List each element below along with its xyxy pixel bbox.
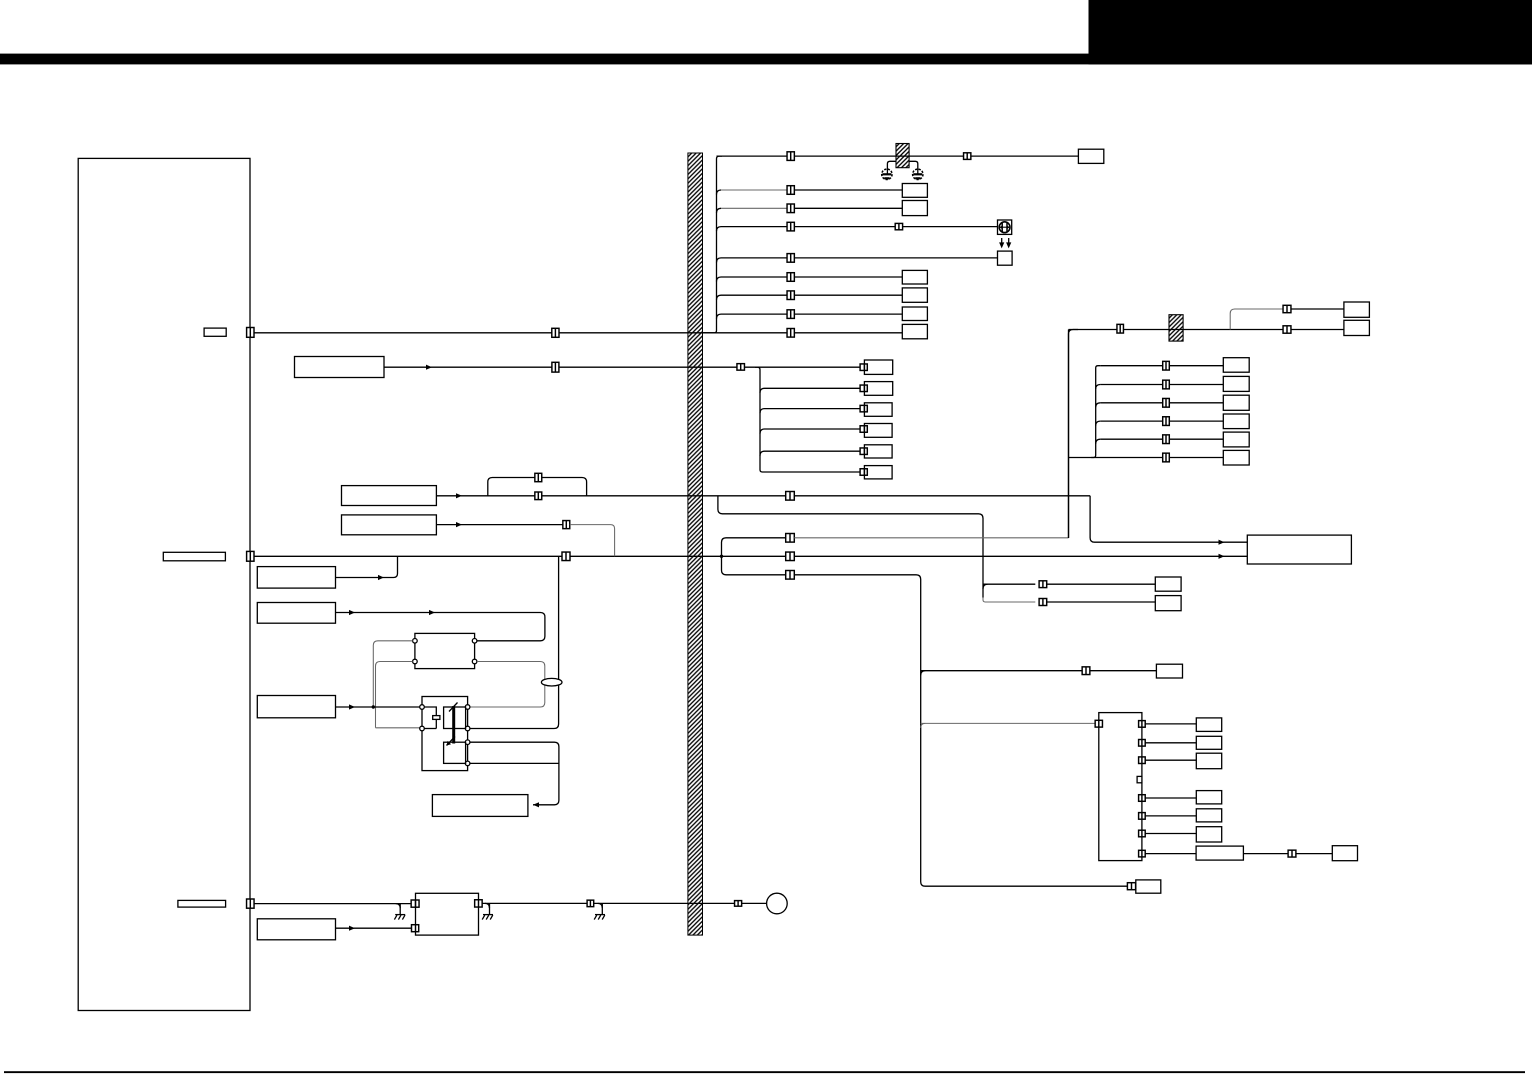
connector wire2 a — [1039, 581, 1047, 588]
ground tap 3 elbow — [598, 903, 603, 908]
ECM pin label 1 — [204, 328, 226, 336]
thermostat box B — [342, 515, 437, 535]
component box topright b — [1344, 320, 1370, 335]
fan row4 pin — [860, 426, 867, 433]
ground tap 1 — [399, 904, 401, 915]
connector topright b — [1283, 326, 1291, 333]
topright a to box — [1291, 308, 1344, 310]
wire5 branch — [722, 556, 786, 575]
component box rowE — [1223, 432, 1249, 447]
box0 wire — [384, 366, 757, 368]
wireA loop — [488, 478, 587, 496]
connector row5 — [787, 254, 794, 263]
row2 wire right — [787, 189, 902, 191]
filter left bottom pin — [412, 925, 419, 932]
row9 wire to box — [703, 332, 903, 334]
wire2b to box — [1047, 601, 1156, 603]
row2 branch — [717, 190, 722, 195]
tall box pin p2 — [1139, 740, 1146, 747]
relay LB drop — [376, 662, 413, 728]
connector on main wire — [562, 552, 570, 561]
fan row6 pin — [860, 469, 867, 476]
component box p1 — [1196, 718, 1221, 732]
row2 wire left — [721, 189, 787, 191]
component box rowA — [1223, 358, 1249, 373]
component box p5 — [1196, 791, 1221, 804]
component box 670 — [1156, 664, 1182, 678]
vertical B from main wire — [470, 556, 559, 728]
ECM pin connector 2 — [247, 551, 254, 561]
component box p7 — [1196, 827, 1221, 842]
ground tap 2 — [489, 903, 491, 914]
tall box pin p7 — [1139, 830, 1146, 837]
rowC branch — [1096, 403, 1101, 408]
component box below fan — [998, 251, 1013, 265]
connector rowF — [1163, 453, 1170, 462]
compressor clutch coil circle — [767, 893, 788, 914]
fan row2 branch — [760, 388, 765, 393]
junction connector block — [1099, 713, 1142, 861]
tall box pin p1 — [1139, 721, 1146, 728]
power transistor box — [422, 697, 468, 771]
wire5 to drop — [794, 575, 1127, 886]
arrowhead box4 — [533, 802, 539, 807]
row3 wire right — [787, 207, 902, 209]
rowA wire — [1100, 365, 1223, 367]
relay pin — [472, 659, 477, 664]
component box rowB — [1223, 376, 1249, 391]
header black title block — [1089, 0, 1532, 64]
wire3 riser — [1069, 330, 1079, 538]
boxB wire — [436, 524, 569, 526]
component box row1 right — [1078, 149, 1103, 163]
connector topright main — [1117, 324, 1124, 333]
transistor slash bottom — [447, 737, 456, 746]
component box row6 — [902, 270, 927, 284]
row6 branch — [717, 277, 722, 282]
connector row4 b — [895, 223, 902, 229]
vertical bus harness — [712, 156, 722, 333]
row7 wire — [721, 294, 902, 296]
connector row8 — [787, 310, 794, 319]
arrowhead boxB — [456, 522, 462, 527]
box2 wire — [336, 613, 545, 641]
arrowhead box0 — [426, 365, 432, 370]
connector 670 — [1082, 667, 1090, 675]
component box fan row4 — [864, 424, 892, 438]
component box 886 — [1136, 880, 1161, 893]
topright gray branch — [1230, 309, 1283, 330]
wire2 elbow — [983, 584, 988, 589]
row5 wire — [721, 257, 998, 259]
fan row5 wire — [765, 450, 861, 452]
arrowhead box5 — [349, 926, 355, 931]
wide component box p8 — [1196, 846, 1243, 860]
row3 wire left — [721, 207, 787, 209]
wire p1 — [1145, 723, 1196, 725]
connector p8 — [1288, 850, 1296, 857]
wire2a to box — [1047, 583, 1156, 585]
arrowhead box2 a — [349, 610, 355, 615]
filter right pin — [475, 900, 483, 907]
tall box pin p5 — [1139, 795, 1146, 802]
rowE branch — [1096, 439, 1101, 444]
connector box0 a — [552, 362, 559, 372]
row8 branch — [717, 314, 722, 319]
670 to box — [1090, 670, 1157, 672]
R4 to drop — [470, 762, 559, 764]
fan bus — [755, 367, 765, 472]
fan row6 wire — [765, 471, 861, 473]
lower link to transistor — [376, 727, 420, 729]
transistor slash top — [449, 703, 458, 712]
connector row4 — [787, 222, 794, 231]
dress panel hatched box right — [1169, 315, 1183, 341]
component box row8 — [902, 307, 927, 321]
condenser fan motor symbol — [998, 220, 1012, 234]
tall box pin p8 — [1139, 850, 1146, 857]
connector loop upper — [535, 473, 542, 481]
component box p2 — [1196, 736, 1221, 749]
rowE wire — [1100, 438, 1223, 440]
wire p6 — [1145, 815, 1196, 817]
component box fan row5 — [864, 445, 892, 458]
component box fan row2 — [864, 382, 892, 396]
evaporator sensor box 4 — [432, 795, 528, 817]
component box rowD — [1223, 414, 1249, 429]
ground symbol 2 — [482, 915, 493, 920]
component box rowC — [1223, 395, 1249, 410]
ground tap 2 elbow — [485, 903, 490, 908]
row6 wire — [721, 276, 902, 278]
wire3 branch — [722, 538, 786, 557]
ground lead left — [887, 161, 896, 173]
ECM/PCM control unit box — [78, 158, 250, 1010]
fan row4 branch — [760, 429, 765, 434]
bottom wire right — [482, 902, 766, 904]
relay LT drop — [373, 641, 412, 707]
ECM pin label 3 — [178, 900, 226, 907]
fan row2 pin — [860, 385, 867, 392]
flow arrows below fan — [999, 238, 1011, 248]
fan row5 branch — [760, 451, 765, 456]
row7 branch — [717, 295, 722, 300]
relay pin — [413, 639, 418, 644]
ground lead right — [909, 161, 918, 173]
connector row3 — [787, 204, 794, 213]
bottom rule — [4, 1071, 1525, 1073]
relay pin — [472, 639, 477, 644]
bus wire right top — [1069, 329, 1284, 331]
connector rowE — [1163, 435, 1170, 444]
main wire pin2 — [254, 555, 1247, 557]
arrowhead box3 — [349, 704, 355, 709]
connector rowC — [1163, 398, 1170, 407]
internal lb link — [424, 728, 436, 730]
fan row4 wire — [765, 428, 861, 430]
connector rowD — [1163, 417, 1170, 426]
transistor right pin — [465, 761, 470, 766]
connector row1 a — [787, 152, 794, 161]
ground symbol 3 — [594, 915, 605, 920]
arrowhead main wire — [1219, 554, 1225, 559]
component box p3 — [1196, 753, 1221, 769]
connector C101 on pin1 wire — [552, 328, 559, 337]
wire5 elbow 670 — [921, 671, 926, 676]
connector row9 — [787, 329, 794, 338]
wire2 branch tail — [983, 598, 1035, 603]
connector bottom a — [587, 900, 594, 907]
wireA main — [436, 495, 1090, 497]
control unit box R — [1247, 535, 1351, 564]
component box rowF — [1223, 450, 1249, 465]
wire p8 ext — [1243, 853, 1332, 855]
boxB wire to junction — [570, 525, 615, 557]
tall box pin p3 — [1139, 757, 1146, 764]
ECM pin label 2 — [163, 552, 225, 561]
component box row7 — [902, 288, 927, 302]
noise condenser box — [416, 893, 479, 935]
rowB branch — [1096, 385, 1101, 390]
connector 886 — [1127, 883, 1135, 890]
connector bottom b — [735, 901, 742, 907]
twisted pair oval — [541, 678, 562, 686]
component box p6 — [1196, 809, 1221, 822]
connector boxB — [563, 521, 570, 529]
wire5 branch 723 gray — [921, 722, 1096, 724]
connector row1 b — [964, 153, 971, 160]
connector wire3 — [786, 534, 795, 543]
ECM pin connector 1 — [247, 328, 254, 338]
body ground bolt left — [882, 169, 892, 179]
box1 output wire — [336, 556, 398, 577]
bottom main wire — [254, 903, 411, 905]
row8 wire — [721, 313, 902, 315]
transistor gate bar — [452, 706, 455, 744]
fan row1 pin — [860, 364, 867, 371]
fan row3 wire — [765, 408, 861, 410]
connector wireA right of bulkhead — [786, 492, 795, 501]
rowC wire — [1100, 402, 1223, 404]
transistor upper cell — [444, 707, 466, 729]
rowF wire — [1163, 457, 1224, 459]
component box topright a — [1344, 302, 1370, 317]
connector row6 — [787, 273, 794, 282]
bulkhead connector hatched bar — [688, 153, 703, 935]
wire p5 — [1145, 797, 1196, 799]
transistor lower cell — [444, 742, 466, 763]
wire2 branch up — [983, 583, 1035, 585]
transistor left pin — [420, 726, 425, 731]
connector rowA — [1163, 361, 1170, 370]
fan row3 pin — [860, 405, 867, 412]
arrowhead boxA — [456, 493, 462, 498]
connector topright a — [1283, 305, 1291, 312]
wire p8 — [1145, 853, 1196, 855]
control box 5 — [257, 919, 335, 940]
component box fan row1 — [864, 360, 892, 374]
right bus — [1091, 366, 1100, 458]
relay pin — [413, 659, 418, 664]
arrowhead wireA — [1219, 540, 1225, 545]
internal zener — [424, 707, 440, 729]
row4 wire — [721, 226, 998, 228]
R3 to drop — [470, 742, 559, 805]
control box 3 — [257, 696, 335, 718]
compressor clutch box A — [342, 486, 437, 506]
relay control box 1 — [257, 567, 335, 589]
row1 wire — [717, 155, 1079, 157]
wire p3 — [1145, 759, 1196, 761]
connector rowB — [1163, 380, 1170, 389]
connector loop lower — [535, 492, 542, 500]
fan row3 branch — [760, 409, 765, 414]
rowD wire — [1100, 420, 1223, 422]
topright b to box — [1291, 329, 1344, 331]
component box fan row3 — [864, 403, 892, 417]
body ground bolt right — [913, 169, 923, 179]
page header black bar — [0, 54, 1532, 65]
component box row9 — [902, 324, 927, 338]
component box fan row6 — [864, 466, 892, 479]
wire5 branch 670 — [921, 670, 1082, 672]
connector main wire right of bulkhead — [786, 552, 795, 561]
wire3 gray — [794, 537, 1068, 539]
connector row2 — [787, 186, 794, 195]
wire5 elbow 723 — [921, 723, 926, 728]
ECM pin connector 3 — [247, 899, 255, 908]
box3 wire — [336, 706, 420, 708]
arrowhead box1 — [378, 575, 384, 580]
transistor right pin — [465, 740, 470, 745]
end box p8 — [1332, 846, 1357, 861]
row4 branch — [717, 227, 722, 232]
ground symbol 1 — [394, 915, 405, 920]
wire p7 — [1145, 833, 1196, 835]
tall box left pin — [1095, 720, 1102, 727]
transistor left pin — [420, 705, 425, 710]
dress panel hatched box row1 — [896, 144, 909, 168]
relay box — [415, 633, 475, 668]
connector wire2 b — [1039, 599, 1047, 606]
wire ECM pin1 to bus — [254, 332, 712, 334]
transistor right pin — [465, 705, 470, 710]
wireA drop to boxR — [1090, 496, 1247, 542]
rowB wire — [1100, 384, 1223, 386]
junction dot relay drop — [372, 705, 375, 708]
connector box0 b — [737, 364, 745, 371]
row3 branch — [717, 208, 722, 213]
arrowhead box2 b — [429, 610, 435, 615]
rowD branch — [1096, 421, 1101, 426]
vertical wire3 down — [1068, 330, 1070, 539]
component box wire2b — [1155, 596, 1181, 611]
connector row7 — [787, 291, 794, 300]
mode control box 0 — [295, 357, 385, 378]
row5 branch — [717, 258, 722, 263]
wire2 branch — [718, 496, 983, 598]
connector wire5 — [786, 571, 795, 580]
transistor right pin — [465, 726, 470, 731]
wire p2 — [1145, 742, 1196, 744]
control box 2 — [257, 603, 335, 624]
filter left top pin — [411, 900, 419, 907]
component box row3 — [902, 201, 927, 216]
fan row5 pin — [860, 448, 867, 455]
ground tap 3 — [601, 903, 603, 914]
component box wire2a — [1155, 577, 1181, 591]
tall box pin p4 (no wire) — [1137, 776, 1142, 782]
tall box pin p6 — [1139, 813, 1146, 820]
fan row1 wire — [757, 366, 860, 368]
rowF feed — [1069, 457, 1163, 459]
relay RB to transistor gray — [470, 662, 545, 708]
junction dot main-wire3 — [720, 555, 723, 558]
fan row2 wire — [765, 387, 861, 389]
box5 wire — [336, 927, 412, 929]
component box row2 — [902, 184, 927, 198]
ground tap 1 elbow — [396, 904, 401, 909]
